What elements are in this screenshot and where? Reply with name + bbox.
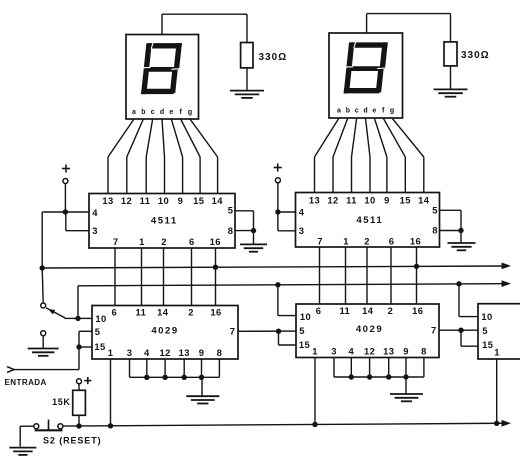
svg-text:2: 2 (188, 306, 194, 317)
svg-text:12: 12 (121, 195, 132, 206)
svg-text:a: a (337, 108, 341, 115)
svg-text:16: 16 (210, 236, 221, 247)
svg-text:7: 7 (230, 326, 236, 337)
svg-text:4511: 4511 (151, 216, 178, 227)
svg-text:8: 8 (217, 347, 223, 358)
svg-text:4: 4 (92, 207, 98, 218)
svg-text:12: 12 (364, 345, 375, 356)
svg-text:4: 4 (299, 207, 305, 218)
svg-text:5: 5 (228, 205, 234, 216)
svg-text:3: 3 (331, 345, 337, 356)
svg-text:16: 16 (412, 305, 423, 316)
svg-text:13: 13 (383, 345, 394, 356)
svg-text:16: 16 (210, 306, 221, 317)
svg-text:15: 15 (94, 341, 105, 352)
svg-text:2: 2 (388, 305, 394, 316)
svg-text:3: 3 (92, 225, 98, 236)
svg-text:9: 9 (199, 347, 205, 358)
svg-text:g: g (188, 109, 192, 116)
svg-text:d: d (363, 108, 367, 115)
svg-text:14: 14 (157, 306, 169, 317)
svg-text:15: 15 (299, 339, 310, 350)
svg-text:c: c (355, 108, 359, 115)
svg-text:13: 13 (179, 347, 190, 358)
svg-text:12: 12 (327, 194, 338, 205)
svg-text:1: 1 (312, 345, 318, 356)
svg-text:1: 1 (108, 347, 114, 358)
svg-text:4511: 4511 (356, 215, 383, 226)
svg-text:8: 8 (432, 225, 438, 236)
svg-text:15K: 15K (52, 397, 70, 407)
svg-text:5: 5 (482, 325, 488, 336)
svg-text:1: 1 (494, 346, 500, 357)
svg-text:9: 9 (403, 345, 409, 356)
svg-text:b: b (346, 108, 350, 115)
svg-text:c: c (151, 109, 155, 116)
svg-text:330Ω: 330Ω (461, 50, 490, 61)
svg-text:6: 6 (111, 306, 117, 317)
svg-text:15: 15 (193, 195, 204, 206)
svg-text:1: 1 (139, 236, 145, 247)
svg-text:4: 4 (348, 345, 354, 356)
svg-text:330Ω: 330Ω (259, 52, 288, 63)
svg-text:d: d (160, 109, 164, 116)
svg-text:12: 12 (159, 347, 170, 358)
svg-text:13: 13 (102, 195, 113, 206)
svg-text:10: 10 (364, 194, 375, 205)
svg-text:9: 9 (384, 194, 390, 205)
svg-text:15: 15 (482, 339, 493, 350)
svg-text:13: 13 (309, 194, 320, 205)
svg-text:5: 5 (95, 326, 101, 337)
svg-text:10: 10 (300, 311, 311, 322)
svg-text:8: 8 (421, 345, 427, 356)
svg-text:g: g (390, 108, 394, 115)
svg-text:2: 2 (364, 236, 370, 247)
svg-text:4029: 4029 (356, 324, 383, 335)
svg-text:15: 15 (400, 194, 411, 205)
svg-text:11: 11 (140, 195, 151, 206)
svg-text:3: 3 (299, 225, 305, 236)
svg-text:1: 1 (343, 236, 349, 247)
svg-text:16: 16 (410, 236, 421, 247)
svg-text:10: 10 (481, 311, 492, 322)
svg-text:7: 7 (317, 236, 323, 247)
svg-text:14: 14 (212, 195, 224, 206)
svg-text:10: 10 (158, 195, 169, 206)
svg-text:9: 9 (178, 195, 184, 206)
svg-text:7: 7 (113, 236, 119, 247)
svg-text:4029: 4029 (151, 326, 178, 337)
svg-text:2: 2 (161, 236, 167, 247)
svg-text:8: 8 (228, 225, 234, 236)
svg-text:11: 11 (339, 305, 350, 316)
svg-text:6: 6 (316, 305, 322, 316)
svg-text:4: 4 (144, 347, 150, 358)
svg-text:b: b (141, 109, 145, 116)
svg-text:6: 6 (389, 236, 395, 247)
svg-text:5: 5 (432, 204, 438, 215)
svg-text:e: e (169, 109, 173, 116)
svg-text:6: 6 (189, 236, 195, 247)
svg-text:a: a (132, 109, 136, 116)
svg-text:14: 14 (418, 194, 430, 205)
svg-text:10: 10 (95, 313, 106, 324)
svg-text:e: e (372, 108, 376, 115)
svg-text:7: 7 (431, 324, 437, 335)
svg-text:3: 3 (127, 347, 133, 358)
svg-text:S2 (RESET): S2 (RESET) (43, 435, 102, 445)
svg-text:11: 11 (346, 194, 357, 205)
svg-text:14: 14 (362, 305, 374, 316)
svg-text:11: 11 (136, 306, 147, 317)
svg-text:ENTRADA: ENTRADA (5, 378, 47, 387)
svg-text:5: 5 (299, 325, 305, 336)
